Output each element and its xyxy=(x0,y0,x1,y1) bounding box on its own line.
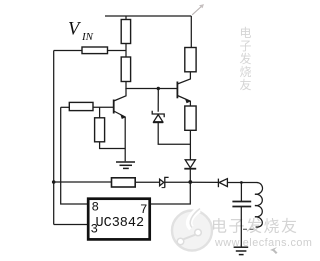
node D2 junction dot xyxy=(188,180,192,184)
node output junction dot xyxy=(240,181,243,184)
wire Ra to Rb through VIN node xyxy=(125,44,127,58)
wire R4 bottom to emitter xyxy=(100,142,126,149)
node bottom-left dot xyxy=(52,180,56,184)
wire left rail xyxy=(53,51,55,225)
svg-text:www.elecfans.com: www.elecfans.com xyxy=(214,237,312,249)
wire cap to ground xyxy=(240,207,242,247)
svg-text:8: 8 xyxy=(92,201,100,215)
resistor R4 xyxy=(95,118,105,142)
resistor R2 (collector load) xyxy=(185,48,196,72)
node VIN top rail xyxy=(105,15,191,17)
zener diode D1 xyxy=(152,111,164,123)
wire zener branch upper xyxy=(157,89,159,112)
resistor Rb (lower divider) xyxy=(121,57,130,82)
wire Rb bottom to Q2 base xyxy=(126,82,177,89)
resistor R1 (VIN series) xyxy=(82,47,108,54)
wire R3 to Q1 base xyxy=(93,106,114,108)
resistor R5 (emitter) xyxy=(185,106,196,130)
wire output node to coil xyxy=(241,182,257,184)
diode D2 xyxy=(184,160,196,169)
ground GND2 xyxy=(234,247,249,254)
svg-text:烧: 烧 xyxy=(240,65,252,79)
wire top-right drop to R2 xyxy=(190,16,192,48)
diode D3 xyxy=(160,177,169,187)
transistor Q2 xyxy=(177,72,190,106)
wire R3 feed from pin8 line xyxy=(61,106,70,108)
resistor R3 (base feed) xyxy=(69,102,93,110)
wire cap branch xyxy=(240,183,242,202)
svg-text:电: 电 xyxy=(240,26,252,40)
wire coil return (faint) xyxy=(243,228,254,230)
wire zener branch lower xyxy=(158,123,190,145)
wire R5 to D2 xyxy=(189,130,191,159)
svg-text:子: 子 xyxy=(240,39,252,53)
wire VIN to left rail xyxy=(54,50,82,52)
op-amp U1 UC3842 box xyxy=(88,199,150,240)
capacitor C1 xyxy=(232,202,251,207)
resistor Ra (upper divider) xyxy=(121,20,130,44)
wire VIN feed xyxy=(108,50,127,52)
arrow to supply (top right) xyxy=(192,4,204,15)
wire pin8 riser xyxy=(61,107,87,204)
inductor L1 xyxy=(255,183,263,228)
diode D4 xyxy=(218,179,227,188)
wire D3 to junction xyxy=(165,181,191,183)
node VIN label xyxy=(68,20,94,43)
wire junction to D4 xyxy=(190,181,218,183)
wire D4 to output node xyxy=(227,182,241,184)
wire stub rail to Ra xyxy=(125,16,127,20)
svg-text:UC3842: UC3842 xyxy=(96,216,145,231)
resistor R6 (bottom rail) xyxy=(112,178,136,187)
wire junction to pin7 riser xyxy=(150,182,191,204)
ground GND1 xyxy=(116,162,135,168)
node zener tap dot xyxy=(157,87,160,90)
transistor Q1 xyxy=(114,88,126,161)
wire R6 to D3 xyxy=(135,181,159,183)
svg-text:友: 友 xyxy=(240,78,252,92)
watermark cursor arrow xyxy=(270,247,278,254)
wire bottom rail left xyxy=(54,181,112,183)
svg-text:发: 发 xyxy=(240,51,252,66)
wire R4 top stub xyxy=(99,107,101,118)
watermark logo circle xyxy=(172,209,212,251)
wire D2 to bottom rail xyxy=(189,169,191,183)
svg-text:电子发烧友: 电子发烧友 xyxy=(211,218,299,236)
svg-text:IN: IN xyxy=(81,31,94,43)
wire pin3 xyxy=(54,224,87,226)
